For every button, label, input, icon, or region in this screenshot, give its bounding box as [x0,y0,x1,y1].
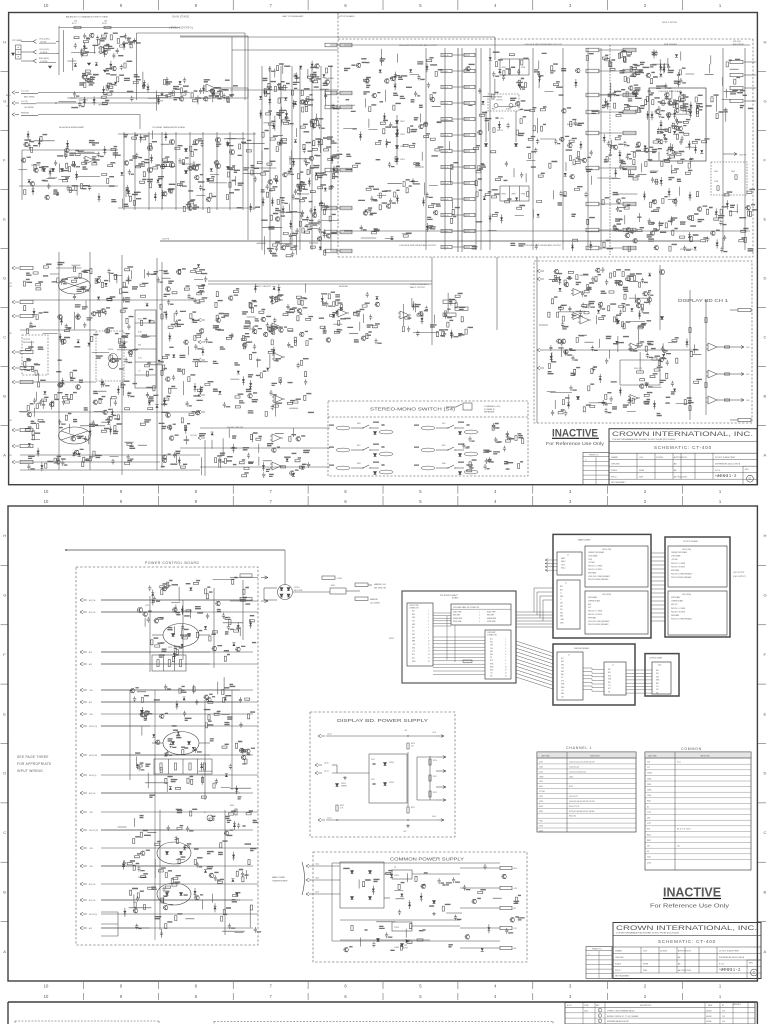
svg-text:RD2: RD2 [561,661,564,663]
low-side error amp op-amp U3 [668,149,676,156]
svg-text:J1-6 (9): J1-6 (9) [21,101,28,103]
svg-text:NONE: NONE [639,470,645,472]
gain network dashed box [711,162,747,195]
level control potentiometer FADER [157,95,168,97]
wire gain stage feedback [70,97,248,99]
power control wires to right edge [253,611,258,613]
title block grid rows [609,459,757,461]
svg-text:PROJ #: PROJ # [615,970,621,972]
P6P internal wires upper [433,612,451,614]
prints-to table [583,453,609,485]
svg-text:R141: R141 [8,420,12,422]
svg-text:AE TW 01/31/94: AE TW 01/31/94 [674,475,687,478]
svg-text:CR501: CR501 [341,783,346,785]
svg-text:OBSOLETED: OBSOLETED [590,755,601,757]
svg-text:R502: R502 [340,805,344,807]
resistor trio box [152,655,186,671]
svg-text:10/28/94: 10/28/94 [706,1021,712,1023]
svg-text:COMMON POWER SUPPLY: COMMON POWER SUPPLY [390,857,464,862]
output board boundary bus taps [330,44,352,46]
svg-text:GN5: GN5 [561,671,564,673]
output board J200 L700 box [668,546,727,587]
svg-text:F401: F401 [331,585,335,587]
svg-text:OPEN: OPEN [502,194,506,196]
svg-text:J801-12 (5): J801-12 (5) [89,914,98,916]
svg-text:PS01-19: PS01-19 [442,247,449,249]
svg-text:COMMON: COMMON [681,747,702,751]
svg-text:W/4 GRN-YEL: W/4 GRN-YEL [374,588,386,590]
output reference dashed box [22,335,48,375]
power control board dashed box [76,567,258,945]
buffer op-amp U6 [338,309,347,317]
svg-text:BOARD: BOARD [452,597,459,600]
display J3-J4 jogged wires [583,667,592,669]
svg-text:BL1: BL1 [490,639,493,641]
svg-text:GAIN STAGE: GAIN STAGE [172,15,190,18]
voltage translator rails [123,132,125,210]
svg-text:YE4: YE4 [561,668,564,670]
wire bridge outputs [264,587,277,589]
switch area extra components [462,423,524,472]
revision table sheet 3 [565,1003,755,1024]
P6P internal wires lower [433,636,485,638]
low-side error amp box components [653,94,707,157]
svg-text:GN3: GN3 [656,676,659,678]
fault circuit components [215,284,311,417]
svg-text:J5: J5 [565,583,567,585]
svg-text:C: C [764,335,767,340]
svg-text:CR107: CR107 [294,587,300,589]
svg-text:J3-14: J3-14 [324,771,329,773]
svg-text:-15V: -15V [588,607,591,609]
svg-text:R76: R76 [647,829,650,831]
svg-text:J1-5 (12): J1-5 (12) [21,91,29,93]
svg-text:1N4933: 1N4933 [402,948,408,950]
high-side driver block C [360,178,438,238]
svg-text:HIGH-SIDE NPN DRIVER AND OUTPU: HIGH-SIDE NPN DRIVER AND OUTPUT [399,44,438,47]
svg-text:01/18/90: 01/18/90 [656,457,663,459]
second PS bus dashed vertical [609,45,611,255]
fault circuit op-amp U5D [274,395,283,403]
bridge rectifier RECT81 [278,585,293,600]
svg-text:CL32: CL32 [539,771,543,773]
display bd comparator U510A [630,395,638,402]
svg-text:01/18/90: 01/18/90 [660,951,667,953]
high-side driver sparse east [437,122,455,224]
svg-text:GREEN: GREEN [341,786,348,788]
bundle P6P to main board J5 [516,611,553,613]
svg-text:CR412: CR412 [400,134,405,136]
output board box sheet2 [665,537,730,637]
svg-text:CT11: CT11 [647,823,651,825]
svg-text:SCALE: SCALE [611,469,618,472]
svg-text:CH1+(CH2+): CH1+(CH2+) [39,38,50,40]
wire mains top rail [66,549,285,551]
svg-text:05/02/94: 05/02/94 [706,1016,712,1018]
svg-text:+15V: +15V [412,644,415,646]
svg-text:J0631-2: J0631-2 [717,473,737,478]
main board J203 L703 box [585,546,648,587]
svg-text:PS01-10: PS01-10 [442,167,449,169]
svg-text:R500 4.7K: R500 4.7K [634,368,643,370]
channel 1 table [537,752,636,832]
svg-text:J4-3 (GRN): J4-3 (GRN) [370,603,380,605]
svg-text:E: E [764,217,767,222]
svg-text:T001: T001 [539,821,543,823]
svg-text:R510: R510 [433,760,437,762]
svg-text:330: 330 [138,345,141,347]
svg-text:C: C [3,830,6,835]
svg-text:GND: GND [560,616,563,618]
svg-text:H: H [3,533,6,538]
svg-text:CROWN INTERNATIONAL, INC.: CROWN INTERNATIONAL, INC. [616,925,757,932]
wire top band rail B [232,49,338,51]
svg-text:RL29,172,178: RL29,172,178 [569,806,579,808]
svg-text:LGG: LGG [643,951,647,953]
svg-text:C201,161-242: C201,161-242 [569,766,579,768]
svg-text:GND -15V: GND -15V [671,604,677,606]
sense input arrow RFI [12,113,15,115]
svg-text:B: B [3,889,6,894]
svg-text:CR413: CR413 [400,146,405,148]
svg-text:CT7001: CT7001 [539,791,545,793]
svg-text:R131: R131 [8,333,12,335]
svg-text:BALANCED TO UNBALANCED INPUT S: BALANCED TO UNBALANCED INPUT STAGE [66,16,109,19]
svg-text:+PS1: +PS1 [89,812,93,814]
svg-text:J0631-2: J0631-2 [721,967,741,972]
svg-text:SW1: SW1 [560,612,563,614]
left block transistors [58,315,63,320]
fault circuit op-amp U5A [272,296,281,304]
driver group box high-side [500,59,529,75]
svg-text:10: 10 [44,984,49,989]
svg-text:OBSOLETED: OBSOLETED [700,755,711,757]
svg-text:NEXT ASSEMBLY: NEXT ASSEMBLY [611,481,627,484]
svg-text:A: A [764,949,767,954]
output terminal BLACK [509,104,513,108]
main board J4 input arrows [545,559,557,561]
high-side error amp diodes [43,169,46,172]
svg-text:2089: 2089 [643,970,647,972]
svg-text:For Reference Use Only: For Reference Use Only [546,441,605,446]
display bd feedback loop box [620,359,660,361]
svg-text:LEVEL CONTROL: LEVEL CONTROL [169,27,194,30]
wire fault feed double rail [208,280,432,282]
display bd output op-amps [708,343,717,351]
svg-text:13: 13 [505,676,507,678]
stereo-mono header switch [446,406,456,408]
svg-text:WH4: WH4 [608,679,611,681]
svg-text:GND-4: GND-4 [561,568,566,570]
svg-text:SCHEMATIC: CT-400: SCHEMATIC: CT-400 [654,445,712,450]
svg-text:ZONE: ZONE [584,1005,588,1007]
svg-text:+5V: +5V [490,673,493,675]
svg-text:HL31: HL31 [539,786,543,788]
display bd op-amp A [573,289,581,296]
power control transistor Q751 [137,607,142,612]
svg-text:PS01-18: PS01-18 [442,55,449,57]
svg-text:BIAS STRING: BIAS STRING [567,123,580,126]
svg-text:CR401: CR401 [394,947,399,949]
main board J4 connector [557,552,582,575]
title block grid rows [613,953,761,955]
svg-text:J4P (4,6): J4P (4,6) [733,41,741,43]
svg-text:-SEN: -SEN [560,622,563,624]
svg-text:+15V GND: +15V GND [588,562,595,564]
svg-text:K1: K1 [647,806,649,808]
wire level to translator [218,87,248,89]
svg-text:BU5: BU5 [656,683,659,685]
svg-text:CROWN INTERNATIONAL, INC.: CROWN INTERNATIONAL, INC. [612,431,753,438]
svg-text:DRAWN: DRAWN [615,950,622,953]
wire top band rail C [230,89,338,91]
svg-text:Q01,115,117: Q01,115,117 [569,796,578,798]
display bd right edge labels [738,308,751,311]
input stage grounds [48,66,51,68]
svg-text:LOW-SIDE PNP DRIVER AND OUTPUT: LOW-SIDE PNP DRIVER AND OUTPUT [524,244,562,247]
svg-text:J801-6 (11): J801-6 (11) [89,726,98,728]
svg-text:REAR PANEL: REAR PANEL [492,96,503,99]
svg-text:For Reference Use Only: For Reference Use Only [650,904,729,910]
svg-text:J8-8: J8-8 [513,948,516,950]
svg-text:CB51: CB51 [647,784,651,786]
svg-text:TURN ON DELAY &: TURN ON DELAY & [410,283,429,286]
svg-text:Q63: Q63 [647,818,650,820]
svg-text:CR63: CR63 [647,778,651,780]
svg-text:WHT: WHT [412,637,415,639]
buffer components [320,292,379,344]
high-side error amp components [18,131,116,203]
svg-text:APPROVED BY :: APPROVED BY : [678,950,692,953]
svg-text:SEPARATE: SEPARATE [484,411,495,414]
svg-text:HL20: HL20 [569,786,573,788]
display bd op-amp B [573,313,581,320]
power control horizontal wires [101,599,240,601]
svg-text:C102,121,125,127,128,131,132,1: C102,121,125,127,128,131,132,137 [569,762,595,764]
svg-text:R411 10: R411 10 [497,130,503,132]
svg-text:GN3: GN3 [608,675,611,677]
svg-text:BN10: BN10 [490,666,494,668]
power control R663 column [235,809,237,815]
sheet 1 zone numbers bottom [83,486,85,494]
svg-text:YE4: YE4 [490,648,493,650]
high-side output diff pair oval top [59,277,91,294]
svg-text:G: G [764,593,767,598]
switch cluster rows [336,426,350,430]
svg-text:E.C.N.: E.C.N. [719,964,725,966]
title block frame [613,923,761,979]
svg-text:R511: R511 [433,776,437,778]
svg-text:PS01 CH2 : LO DRIVE: PS01 CH2 : LO DRIVE [588,566,602,568]
svg-text:CR411: CR411 [400,121,405,123]
svg-text:BK2: BK2 [656,673,659,675]
svg-text:PS01 CH2 : HI DRIVE: PS01 CH2 : HI DRIVE [588,569,602,571]
svg-text:LOW-SIDE PNP DRIVER AND OUTPUT: LOW-SIDE PNP DRIVER AND OUTPUT [399,244,437,247]
P6P resistor on wire [463,660,472,662]
svg-text:AE TW 01/31/94: AE TW 01/31/94 [678,969,691,972]
bundle riser to J5 upper [533,588,535,612]
level control components [142,72,229,111]
svg-text:BBS1 SENSE: BBS1 SENSE [24,97,35,99]
display supply ladder out arrows [436,756,446,758]
turn-on delay components [402,293,467,339]
high-side driver block B [359,113,440,168]
svg-text:7815: 7815 [394,875,400,877]
svg-text:GND: GND [490,670,493,672]
svg-text:SUPERSEDES J0631-2 REV A: SUPERSEDES J0631-2 REV A [719,956,745,959]
display bd LED diodes [661,317,664,320]
svg-text:U514: U514 [539,831,543,833]
svg-text:OR3: OR3 [561,664,564,666]
svg-text:GND: GND [588,604,591,606]
svg-text:PROJ #: PROJ # [611,476,617,478]
svg-text:RD2: RD2 [490,642,493,644]
svg-text:DRAWN: DRAWN [611,456,618,459]
voltage translator components [120,130,264,212]
svg-text:E.C.N.: E.C.N. [567,1005,572,1007]
svg-text:HIGH-SIDE ERROR AMP: HIGH-SIDE ERROR AMP [59,126,85,129]
svg-text:R513: R513 [411,743,415,745]
low-side NPN driver components [465,54,545,250]
svg-text:R411: R411 [647,834,651,836]
power control opto U751 [163,624,199,647]
svg-text:PS01 CH2 : HI DRIVE: PS01 CH2 : HI DRIVE [671,611,685,613]
svg-text:J200 (J200): J200 (J200) [682,594,691,596]
display supply top rail [326,735,436,737]
main board J203 J203 box [585,591,648,634]
svg-text:LOW-SIDE NPN DRIVER AND OUTPUT: LOW-SIDE NPN DRIVER AND OUTPUT [524,43,562,46]
svg-text:MAIN BD: MAIN BD [370,598,379,601]
display supply bridge caps [372,762,375,764]
P6P 9-pin cable box [451,604,511,625]
svg-text:GND: GND [560,596,563,598]
svg-text:CR414: CR414 [400,159,405,161]
display supply bottom rail [326,819,436,821]
svg-text:U1: U1 [394,867,396,869]
svg-text:B: B [3,394,6,399]
svg-text:SUPERSEDES J0631-2 REV A: SUPERSEDES J0631-2 REV A [715,462,741,465]
low-side error amp box [649,88,706,161]
svg-text:J3-B: J3-B [746,400,749,402]
display supply green LED [336,784,339,787]
svg-text:DO NOT SCALE PRINT: DO NOT SCALE PRINT [719,950,740,953]
svg-text:OPEN: OPEN [521,194,525,196]
svg-text:GND: GND [561,693,564,695]
svg-text:OPEN: OPEN [511,194,515,196]
output board J200 J200 box [668,591,727,635]
P6P internal riser [446,616,448,660]
svg-text:C502: C502 [371,779,375,781]
svg-text:A: A [764,453,767,458]
svg-text:2089: 2089 [639,476,643,478]
common supply diode CR401 [401,944,404,947]
left block long rails [121,255,123,475]
svg-text:CONNECTOR: CONNECTOR [409,607,420,609]
pre-driver right column sparse [705,55,739,121]
level control wire box [137,32,246,34]
svg-text:R517: R517 [411,807,415,809]
bundle main to output board [651,552,665,554]
svg-text:12: 12 [428,647,430,649]
main bd arrow labels right of bridge [322,576,335,579]
svg-text:2: 2 [599,1016,600,1018]
svg-text:PCP PANEL: PCP PANEL [12,39,22,42]
input stage components [58,33,138,107]
delay circuit op-amp U7A [272,434,281,442]
resistor R1 1K [74,26,81,28]
svg-text:10: 10 [44,994,49,999]
turn-on delay output labels [443,300,456,303]
svg-text:CH1-(CH2-): CH1-(CH2-) [39,49,49,51]
display bd ch1 dashed box [534,261,752,423]
svg-text:GY8: GY8 [561,680,564,682]
svg-text:100: 100 [677,846,680,848]
svg-text:SCALE: SCALE [615,963,622,966]
transformer bracket [302,862,305,895]
svg-text:(2 PANELS): (2 PANELS) [484,408,495,411]
svg-text:RD1: RD1 [608,669,611,671]
svg-text:RL30: RL30 [539,806,543,808]
svg-text:11: 11 [428,644,430,646]
svg-text:DESCRIPTION: DESCRIPTION [640,1005,652,1007]
power control board vertical rails [149,596,151,672]
svg-text:CLK: CLK [561,696,564,698]
svg-text:(CH1 OUTPUT): (CH1 OUTPUT) [733,576,746,578]
svg-text:SIG: SIG [560,609,562,611]
svg-text:CH2 SENSE: CH2 SENSE [24,107,34,109]
svg-text:ORG: ORG [412,617,415,619]
common supply rail bottom [332,940,500,942]
driver group box low-side [500,186,529,201]
svg-text:D: D [3,771,6,776]
svg-text:12: 12 [505,673,507,675]
svg-text:C62: C62 [647,762,650,764]
wire input bus [58,26,60,75]
svg-text:1718 WEST MISHAWAKA ROAD EL: 1718 WEST MISHAWAKA ROAD ELKHART, IN 465… [612,438,675,441]
svg-text:CR63: CR63 [539,776,543,778]
wire top band rail A [180,36,495,38]
svg-text:K1: K1 [204,812,206,814]
svg-text:A: A [3,949,6,954]
display-control bundle [626,669,652,671]
P6P 16-pin display connector list [485,630,511,679]
title block rev circle [743,465,757,467]
svg-text:VI7: VI7 [561,677,563,679]
svg-text:J10-2: J10-2 [315,864,319,866]
svg-text:RECT81M: RECT81M [294,590,303,592]
svg-text:J10-3: J10-3 [315,878,319,880]
svg-text:+PS1: +PS1 [89,714,93,716]
rear panel output dashed box [488,94,519,111]
svg-text:C501: C501 [371,759,375,761]
svg-text:CR7: CR7 [404,945,407,947]
power control resistor quad row [154,759,212,774]
svg-text:BRN: BRN [412,641,415,643]
svg-text:Q751: Q751 [145,605,149,607]
svg-text:10: 10 [505,666,507,668]
svg-text:J203 (L703): J203 (L703) [602,549,611,551]
display supply R502 [336,805,338,811]
common supply components [344,864,518,952]
display bd power supply dashed box [310,712,455,837]
svg-text:INPUT WIRING: INPUT WIRING [17,769,43,773]
svg-text:Q315: Q315 [539,801,543,803]
output board dashed boundary [337,13,339,257]
svg-text:BBS1: BBS1 [6,95,11,97]
svg-text:CH1 FB: CH1 FB [162,239,170,241]
svg-text:CR503: CR503 [389,762,394,764]
svg-text:C: C [764,830,767,835]
